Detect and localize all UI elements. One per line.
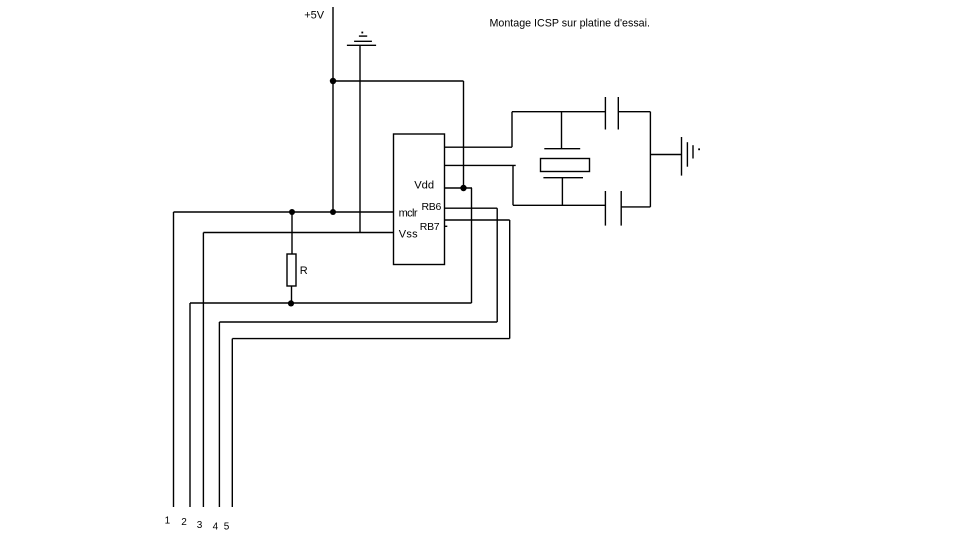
capacitor C2 xyxy=(605,191,621,226)
IC U1 body xyxy=(394,134,445,265)
junction resistor bottom on Vdd net xyxy=(288,300,294,306)
wire RB6 pin stub xyxy=(445,207,498,209)
svg-text:mclr: mclr xyxy=(399,207,418,219)
wire RB7 net left vertical (pin 5 drop) xyxy=(231,339,233,507)
crystal Q1 xyxy=(541,112,590,206)
wire mclr net horizontal xyxy=(174,211,394,213)
wire Vss net horizontal xyxy=(203,232,393,234)
pin tick on IC right edge xyxy=(445,225,448,227)
svg-text:+5V: +5V xyxy=(304,10,325,22)
wire RB6 net left vertical (pin 4 drop) xyxy=(218,322,220,507)
svg-text:Vss: Vss xyxy=(399,228,418,240)
resistor R xyxy=(287,212,296,303)
capacitor C1 xyxy=(605,97,618,130)
svg-text:2: 2 xyxy=(181,517,187,528)
wire RB7 net horizontal xyxy=(232,338,509,340)
wire OSC2 dropper xyxy=(512,166,514,205)
wire to right ground xyxy=(650,154,681,156)
svg-text:Vdd: Vdd xyxy=(414,180,434,192)
wire OSC2 pin stub xyxy=(445,164,516,166)
ground symbol right (rotated earth) xyxy=(682,137,701,176)
wire mclr net vertical (pin 1 drop) xyxy=(173,212,175,507)
wire oscillator right rail xyxy=(649,112,651,207)
wire oscillator top rail xyxy=(512,111,605,113)
wire oscillator bottom rail xyxy=(513,204,605,206)
wire OSC1 pin stub xyxy=(445,146,513,148)
wire RB7 net right vertical xyxy=(509,220,511,339)
svg-text:Montage ICSP sur platine d'ess: Montage ICSP sur platine d'essai. xyxy=(490,17,650,29)
wire Vdd net left vertical (pin 2 drop) xyxy=(189,303,191,507)
svg-text:5: 5 xyxy=(224,521,230,532)
wire +5V branch vertical to Vdd xyxy=(463,81,465,188)
wire Vdd pin stub xyxy=(445,187,473,189)
wire Vss net vertical (pin 3 drop) xyxy=(202,233,204,508)
wire RB6 net horizontal xyxy=(219,321,497,323)
wire C2 to right rail xyxy=(621,206,650,208)
svg-text:RB6: RB6 xyxy=(422,201,442,213)
junction +5V to mclr wire xyxy=(330,209,336,215)
svg-text:1: 1 xyxy=(165,516,171,527)
wire RB7 pin stub xyxy=(445,219,510,221)
wire OSC1 riser xyxy=(511,112,513,148)
wire Vdd net right vertical xyxy=(471,188,473,303)
wire +5V branch horizontal xyxy=(333,80,464,82)
wire ground stem to Vss net xyxy=(359,45,361,232)
wire Vdd net horizontal xyxy=(190,302,472,304)
junction resistor top on mclr net xyxy=(289,209,295,215)
svg-text:3: 3 xyxy=(197,520,203,531)
junction Vdd node xyxy=(460,185,466,191)
svg-text:RB7: RB7 xyxy=(420,221,440,233)
wire +5V rail xyxy=(332,7,334,212)
wire C1 to right rail xyxy=(618,111,650,113)
svg-text:4: 4 xyxy=(213,521,219,532)
junction +5V branch xyxy=(330,78,336,84)
wire RB6 net right vertical xyxy=(496,208,498,322)
ground symbol top (inverted earth) xyxy=(347,32,376,46)
svg-text:R: R xyxy=(300,265,308,277)
